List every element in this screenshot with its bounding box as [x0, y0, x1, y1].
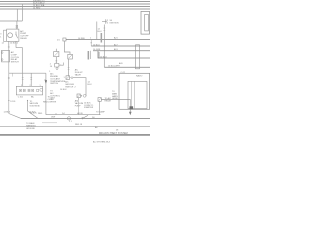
- svg-text:14 BLK: 14 BLK: [60, 89, 67, 91]
- svg-text:14 RED: 14 RED: [78, 38, 86, 40]
- motor pin stub below: [78, 98, 80, 100]
- wire below sensor: [55, 57, 57, 64]
- svg-text:C 201: C 201: [18, 97, 24, 99]
- svg-text:RED: RED: [43, 101, 48, 103]
- distribution line: [9, 72, 46, 74]
- left lower stub: [27, 100, 29, 111]
- comp R box: [98, 98, 101, 102]
- splice dot 2: [8, 77, 9, 78]
- diag merge 1: [9, 114, 21, 119]
- relay pin stub left: [8, 41, 10, 46]
- line C: [93, 50, 150, 52]
- svg-text:SWITCH: SWITCH: [65, 86, 73, 88]
- wire bus line 4: [0, 8, 150, 10]
- pin pair 2: [28, 89, 30, 91]
- small box node: [55, 63, 59, 67]
- wire R right arrow: [101, 100, 130, 113]
- wire bus line 2: [0, 3, 150, 5]
- svg-text:RADIO: RADIO: [136, 75, 143, 78]
- svg-text:RED: RED: [38, 113, 43, 115]
- svg-text:SWITCH: SWITCH: [50, 83, 58, 85]
- svg-text:STARTER: STARTER: [84, 106, 94, 109]
- drop 2: [30, 73, 32, 86]
- wire motor stub down: [78, 100, 80, 115]
- line D: [98, 51, 150, 58]
- line E: [104, 66, 150, 68]
- dash-dot right of vacuum switch: [70, 77, 71, 79]
- wire left loop horizontal: [0, 20, 22, 22]
- svg-text:BLU: BLU: [88, 84, 92, 86]
- bottom right big box: [119, 73, 150, 109]
- svg-text:PUMP: PUMP: [75, 105, 81, 107]
- wire left long vertical: [8, 46, 10, 114]
- comp vacuum switch box: [66, 76, 70, 80]
- svg-text:RELAY: RELAY: [105, 99, 112, 102]
- svg-text:RELAY: RELAY: [20, 37, 27, 40]
- wire drop from bus4: [16, 9, 18, 21]
- mid-left sensor box: [54, 52, 59, 57]
- line B feed: [90, 40, 92, 47]
- tick marks left stub: [8, 45, 10, 47]
- stub above sensor: [55, 49, 57, 52]
- relay left bracket: [4, 30, 7, 41]
- relay contact: [16, 32, 18, 39]
- bottom line B: [21, 117, 150, 119]
- comp clutch box: [2, 50, 10, 62]
- drop 3 long vertical: [45, 73, 47, 115]
- top right box inner: [145, 14, 149, 31]
- connector tall rect: [136, 45, 140, 69]
- svg-text:VALVE: VALVE: [75, 73, 82, 76]
- tick marks drops: [22, 77, 24, 79]
- inner box: [128, 81, 147, 108]
- dash right of motor: [81, 95, 82, 97]
- bottom line D: [0, 134, 150, 136]
- svg-text:14 BLK: 14 BLK: [29, 112, 36, 114]
- terminal circle: [56, 68, 58, 70]
- lamp on line: [67, 117, 70, 120]
- relay coil circle: [8, 33, 13, 38]
- wire to right and down: [73, 78, 87, 96]
- inner verticals: [131, 81, 133, 108]
- svg-text:14 GRN: 14 GRN: [93, 49, 101, 51]
- comp Q1 box: [68, 54, 73, 59]
- svg-text:BLU: BLU: [98, 31, 102, 33]
- svg-text:GRND: GRND: [112, 98, 118, 100]
- svg-text:18W: 18W: [51, 117, 55, 119]
- vertical from icon to line A: [96, 22, 98, 40]
- tick on upper run: [55, 113, 57, 115]
- wire relay to distribution: [16, 48, 22, 74]
- wire from node to P comp: [59, 63, 64, 66]
- wire P down: [64, 41, 70, 54]
- drop 1: [22, 73, 24, 86]
- svg-text:SOLENOID: SOLENOID: [30, 106, 41, 108]
- svg-text:RED 18: RED 18: [75, 124, 83, 126]
- switch on line: [82, 117, 84, 119]
- wire into relay: [16, 21, 18, 29]
- terminal circle: [83, 94, 86, 97]
- diag merge 2: [28, 111, 39, 118]
- svg-text:14 BLU: 14 BLU: [100, 56, 107, 58]
- svg-text:14 RED: 14 RED: [33, 7, 41, 9]
- line B: [91, 45, 150, 47]
- pin pair 1: [20, 89, 22, 91]
- relay K1 box: [7, 29, 19, 41]
- node dash: [60, 64, 62, 66]
- svg-text:TO LAMP: TO LAMP: [96, 110, 105, 113]
- svg-text:S 201: S 201: [10, 101, 16, 103]
- svg-text:AC SYSTEM 28-3: AC SYSTEM 28-3: [93, 140, 111, 143]
- icon ignition top: [102, 21, 106, 23]
- wire icon down: [103, 25, 105, 68]
- svg-text:GROUND: GROUND: [26, 128, 35, 130]
- svg-text:SWITCH: SWITCH: [11, 62, 19, 64]
- wire bus line 1: [0, 1, 150, 3]
- svg-text:14 BLK: 14 BLK: [4, 112, 11, 114]
- svg-text:MR ANTI-THEFT SYSTEM: MR ANTI-THEFT SYSTEM: [99, 132, 128, 135]
- top right box outer: [141, 11, 150, 34]
- harness arrow A: [45, 80, 47, 83]
- relay pin stub right: [15, 41, 17, 47]
- connector C201 box: [16, 86, 42, 95]
- comp P box: [63, 38, 66, 41]
- wire R down to bottom run: [99, 101, 101, 114]
- motor box M: [77, 94, 80, 98]
- svg-text:14 BLU: 14 BLU: [93, 44, 100, 46]
- wire upper bottom run: [46, 114, 101, 116]
- pin pair 3: [37, 89, 39, 91]
- line A horizontal: [66, 39, 150, 41]
- arrowhead: [129, 112, 132, 115]
- wire Q1 down: [68, 59, 70, 76]
- svg-text:HOOD: HOOD: [77, 113, 84, 115]
- svg-text:UNIT: UNIT: [50, 98, 55, 100]
- connector marks above relay: [16, 25, 18, 26]
- dark blob bottom left of inner box: [130, 106, 134, 109]
- bottom line C: [0, 126, 150, 128]
- wire drop from bus2: [21, 4, 23, 21]
- svg-text:IGNITION: IGNITION: [110, 22, 119, 24]
- wire bus line 3: [0, 6, 150, 8]
- svg-text:14 BLU-WHT: 14 BLU-WHT: [108, 66, 121, 68]
- svg-text:LIGHTER: LIGHTER: [48, 101, 57, 103]
- dist left stub: [12, 73, 14, 76]
